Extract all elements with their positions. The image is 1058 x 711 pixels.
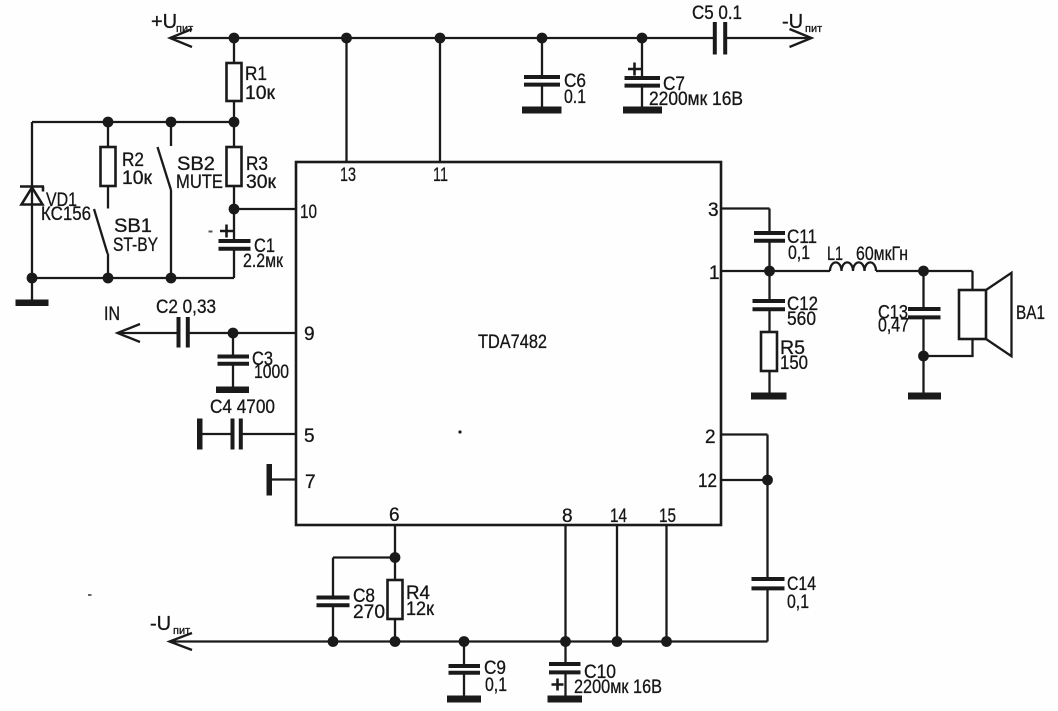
svg-text:11: 11 <box>433 165 448 186</box>
ground bar pin 7 <box>267 464 273 496</box>
node SB1 bottom <box>103 273 114 284</box>
svg-text:0.1: 0.1 <box>564 87 586 108</box>
switch SB2 <box>158 122 172 278</box>
node IN arrow <box>118 324 141 342</box>
switch SB1 <box>94 209 108 278</box>
svg-text:7: 7 <box>305 472 316 493</box>
capacitor C13 <box>908 271 941 393</box>
svg-text:R1: R1 <box>245 64 267 85</box>
speck inside IC <box>458 430 461 433</box>
svg-text:560: 560 <box>787 309 816 330</box>
node pin13 rail <box>341 33 352 44</box>
node R2 top <box>103 117 114 128</box>
node pin14 rail <box>612 636 623 647</box>
svg-text:10: 10 <box>300 202 317 223</box>
wire C14 to rail <box>766 590 768 642</box>
node R4 rail <box>390 636 401 647</box>
wire pin 6 <box>394 525 396 558</box>
svg-text:2.2мк: 2.2мк <box>243 251 284 272</box>
wire pin 11 <box>439 38 441 162</box>
node SB2 bottom <box>166 273 177 284</box>
node C6 rail <box>537 33 548 44</box>
wire L1 to speaker <box>876 271 973 289</box>
speck left area <box>88 594 92 596</box>
node C8 rail <box>328 636 339 647</box>
wire speaker bottom <box>924 339 973 356</box>
node C13 top <box>918 266 929 277</box>
svg-text:150: 150 <box>780 353 808 374</box>
ground under C13 <box>908 393 941 400</box>
inductor L1 <box>830 262 876 271</box>
capacitor C4 <box>233 419 241 450</box>
capacitor C5 <box>715 22 725 55</box>
capacitor C6 <box>524 38 560 107</box>
node VD1 bottom <box>27 273 38 284</box>
node R3 top <box>229 117 240 128</box>
svg-text:270: 270 <box>353 602 385 623</box>
svg-text:MUTE: MUTE <box>176 172 223 193</box>
node C9 rail <box>459 636 470 647</box>
svg-text:BA1: BA1 <box>1016 303 1045 324</box>
node pin15 rail <box>661 636 672 647</box>
svg-text:пит: пит <box>176 23 193 35</box>
svg-text:10к: 10к <box>245 83 276 104</box>
svg-text:2200мк 16В: 2200мк 16В <box>574 677 662 698</box>
node -U arrow top right <box>790 29 812 47</box>
node pin9 C3 <box>228 328 239 339</box>
node pin10 C1 <box>229 204 240 215</box>
capacitor C2 <box>179 317 188 348</box>
ground under C10 <box>548 696 583 703</box>
wire C2 to pin 9 <box>190 332 297 334</box>
resistor R2 <box>101 122 116 209</box>
node +U arrow <box>170 29 192 47</box>
wire pin 14 <box>616 525 618 642</box>
capacitor C10 <box>549 642 581 697</box>
svg-text:2: 2 <box>705 427 716 448</box>
svg-text:-U: -U <box>782 11 803 33</box>
ground under C9 <box>447 696 481 703</box>
wire pin 8 <box>564 525 566 642</box>
diode VD1 <box>20 122 44 278</box>
svg-text:6: 6 <box>389 505 400 526</box>
wire pin 10 <box>234 208 296 210</box>
node R1 top <box>229 33 240 44</box>
wire top +U rail <box>170 37 715 39</box>
svg-text:3: 3 <box>708 200 719 221</box>
svg-text:30к: 30к <box>246 172 277 193</box>
node -U arrow bottom <box>170 633 193 650</box>
node C13 bottom <box>918 351 929 362</box>
ground under R5 <box>751 393 787 400</box>
node C10 rail <box>560 636 571 647</box>
wire pin 7 <box>272 478 296 480</box>
svg-text:9: 9 <box>304 324 315 345</box>
resistor R4 <box>388 558 403 642</box>
svg-text:0,47: 0,47 <box>878 316 909 337</box>
ground under VD1 <box>16 278 49 306</box>
resistor R5 <box>761 332 777 393</box>
svg-text:-U: -U <box>150 613 171 635</box>
ground under C7 <box>623 107 662 114</box>
wire node row y278 <box>32 277 234 279</box>
capacitor C8 <box>317 558 396 642</box>
op-amp U1 TDA7482 body <box>296 162 721 525</box>
capacitor C11 <box>754 233 785 241</box>
ground bar C4 <box>197 419 203 450</box>
wire node 12 to C14 <box>766 480 768 578</box>
svg-text:2200мк 16В: 2200мк 16В <box>649 89 743 110</box>
capacitor C7 <box>625 38 661 107</box>
speaker BA1 <box>959 273 1012 356</box>
svg-text:12к: 12к <box>406 599 435 620</box>
svg-text:0,1: 0,1 <box>788 243 810 264</box>
svg-text:15: 15 <box>659 506 676 527</box>
svg-text:КС156: КС156 <box>41 204 91 225</box>
capacitor C14 <box>752 579 785 588</box>
svg-text:SB1: SB1 <box>114 216 152 237</box>
capacitor C1 <box>219 209 251 278</box>
svg-text:1: 1 <box>709 263 720 284</box>
svg-text:8: 8 <box>562 506 573 527</box>
svg-text:пит.: пит. <box>173 625 192 637</box>
svg-text:C5 0.1: C5 0.1 <box>692 3 742 24</box>
resistor R1 <box>227 38 242 122</box>
wire node row y122 <box>32 121 234 123</box>
wire IN to C2 <box>118 332 178 334</box>
node pin6 <box>390 552 401 563</box>
svg-text:13: 13 <box>340 165 356 186</box>
svg-text:C2 0,33: C2 0,33 <box>156 297 216 318</box>
wire pin 12 <box>721 479 768 481</box>
svg-text:14: 14 <box>610 506 627 527</box>
svg-text:60мкГн: 60мкГн <box>856 244 908 265</box>
wire C4 to pin 5 <box>243 433 297 435</box>
wire C11 to pin1 node <box>768 243 770 272</box>
svg-text:IN: IN <box>104 304 120 325</box>
wire bottom -U rail <box>170 640 768 642</box>
svg-text:12: 12 <box>698 471 717 492</box>
wire top rail right of C5 <box>725 37 812 39</box>
ground under C3 <box>216 387 249 394</box>
node SB2 top <box>166 117 177 128</box>
wire pin 2 <box>721 435 768 481</box>
svg-text:пит: пит <box>805 23 822 35</box>
node C7 rail <box>637 33 648 44</box>
capacitor C12 <box>753 271 786 332</box>
wire pin 15 <box>665 525 667 642</box>
capacitor C9 <box>449 642 481 697</box>
svg-text:TDA7482: TDA7482 <box>478 332 547 353</box>
resistor R3 <box>227 122 242 209</box>
svg-text:0,1: 0,1 <box>787 592 809 613</box>
svg-text:+U: +U <box>151 11 177 33</box>
wire ground to C4 <box>203 433 232 435</box>
svg-text:5: 5 <box>304 426 315 447</box>
wire pin 1 <box>721 270 830 272</box>
svg-text:C4 4700: C4 4700 <box>210 397 275 418</box>
node pin12 C14 <box>762 475 773 486</box>
ground under C6 <box>522 107 562 114</box>
svg-text:10к: 10к <box>122 168 153 189</box>
svg-text:0,1: 0,1 <box>485 675 507 696</box>
wire pin 13 <box>345 38 347 162</box>
node pin11 rail <box>435 33 446 44</box>
capacitor C3 <box>218 333 250 387</box>
speck near C1 <box>209 231 213 233</box>
svg-text:ST-BY: ST-BY <box>113 235 158 256</box>
svg-text:1000: 1000 <box>254 362 289 383</box>
svg-text:L1: L1 <box>827 244 843 265</box>
node pin1 C12 <box>764 266 775 277</box>
wire pin 3 <box>721 209 770 233</box>
